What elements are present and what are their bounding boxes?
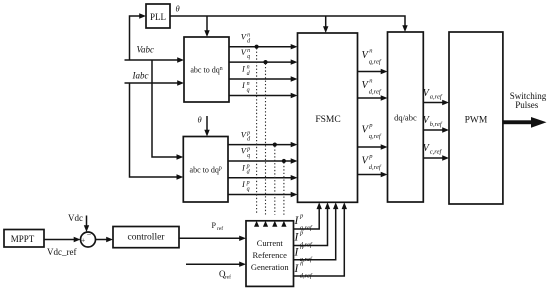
junction dot Vqp — [282, 159, 286, 163]
wire theta branch to abc-to-dqn — [204, 16, 209, 37]
wire Vc_ref — [423, 155, 449, 160]
svg-text:p: p — [246, 130, 250, 136]
block dq/abc — [388, 32, 424, 202]
svg-text:n: n — [247, 81, 250, 87]
wire MPPT to summing junction — [44, 237, 81, 242]
svg-text:PLL: PLL — [150, 12, 166, 22]
junction dot Vdn — [255, 45, 259, 49]
dotted wire Vqn to CRG — [263, 64, 268, 227]
label Vqn — [241, 47, 250, 60]
junction dot Vqn — [263, 60, 267, 64]
label Vdn — [241, 31, 251, 44]
label Idp — [241, 162, 251, 175]
wire theta into abc-to-dqp — [204, 116, 209, 137]
svg-text:Current: Current — [257, 238, 284, 248]
label Iqn — [241, 80, 250, 93]
svg-text:ref: ref — [225, 274, 231, 281]
svg-text:Vdc: Vdc — [68, 213, 83, 223]
wire Vb_ref — [423, 127, 449, 132]
svg-text:MPPT: MPPT — [11, 234, 35, 244]
dotted wire Vdn to CRG — [254, 48, 259, 227]
block controller — [113, 227, 179, 248]
label Vdp — [241, 129, 251, 142]
svg-text:dq/abc: dq/abc — [394, 113, 417, 123]
wire Iabc branch down to abc-to-dqp — [130, 83, 184, 180]
svg-text:Generation: Generation — [251, 262, 290, 272]
svg-text:+: + — [81, 236, 85, 245]
svg-text:d,ref: d,ref — [300, 273, 313, 280]
wire Idp output — [228, 175, 298, 180]
wire Vdn output — [229, 44, 298, 49]
dotted wire Vqp to CRG — [281, 163, 286, 227]
wire Vdp_ref FSMC to dq/abc — [358, 172, 388, 177]
wire summing junction to controller — [96, 237, 114, 242]
wire theta bus PLL to dq/abc — [170, 16, 408, 32]
wire Iqn output — [229, 93, 298, 98]
block PWM — [449, 32, 503, 204]
svg-text:n: n — [369, 78, 372, 85]
svg-text:q: q — [247, 187, 250, 193]
wire Vdc into summing junction — [84, 216, 89, 233]
wire Iqp output — [228, 192, 298, 197]
wire Qref input to CRG — [186, 262, 246, 267]
dotted wire Vdp to CRG — [272, 146, 277, 227]
wire Idn output — [229, 76, 298, 81]
svg-text:q,ref: q,ref — [369, 59, 382, 66]
svg-text:abc to dqp: abc to dqp — [190, 166, 222, 175]
block Current Reference Generation — [246, 221, 294, 287]
wire Pref controller to CRG — [179, 236, 246, 241]
block abc to dq n — [184, 37, 229, 102]
wire Vdp output — [228, 142, 298, 147]
svg-text:q: q — [247, 88, 250, 94]
label Switching Pulses — [510, 91, 547, 110]
svg-text:c,ref: c,ref — [430, 148, 443, 155]
svg-text:n: n — [247, 32, 250, 38]
label Vdn_ref — [362, 78, 382, 96]
wire Vabc branch down to abc-to-dqp — [152, 60, 183, 160]
svg-text:a,ref: a,ref — [430, 94, 443, 101]
label Iqp_ref — [294, 213, 313, 232]
svg-text:q: q — [247, 54, 250, 60]
label Iqp — [241, 179, 250, 192]
svg-text:θ: θ — [176, 4, 180, 14]
svg-text:n: n — [247, 65, 250, 71]
svg-text:b,ref: b,ref — [430, 121, 443, 128]
label Vb_ref — [423, 115, 443, 128]
label Vc_ref — [423, 143, 443, 156]
wire Iabc input to abc-to-dqn — [125, 80, 185, 85]
svg-text:PWM: PWM — [465, 116, 488, 126]
wire Vqn output — [229, 59, 298, 64]
wire Idp_ref CRG to FSMC — [294, 202, 331, 245]
wire Iqn_ref CRG to FSMC — [294, 202, 339, 259]
block abc to dq p — [183, 137, 228, 203]
label Idn_ref — [294, 261, 313, 280]
wire Vabc input to abc-to-dqn — [125, 57, 185, 62]
svg-text:θ: θ — [198, 115, 202, 125]
svg-text:P: P — [212, 221, 217, 230]
summing junction — [81, 230, 96, 247]
label Iqn_ref — [294, 244, 313, 263]
svg-text:p: p — [246, 180, 250, 186]
svg-text:n: n — [247, 48, 250, 54]
svg-text:Pulses: Pulses — [515, 100, 539, 110]
svg-text:Vabc: Vabc — [137, 45, 155, 55]
svg-text:Vdc_ref: Vdc_ref — [47, 247, 76, 257]
wire Vabc branch up to PLL — [130, 13, 147, 60]
wire Idn_ref CRG to FSMC — [294, 202, 348, 276]
label Idn — [241, 64, 251, 77]
wire Iqp_ref CRG to FSMC — [294, 202, 322, 229]
wire Vqp_ref FSMC to dq/abc — [358, 144, 388, 149]
svg-text:FSMC: FSMC — [315, 115, 340, 125]
junction dot Vdp — [273, 143, 277, 147]
svg-text:n: n — [369, 48, 372, 55]
svg-text:Reference: Reference — [253, 250, 288, 260]
svg-text:q,ref: q,ref — [369, 133, 382, 140]
svg-text:n: n — [300, 244, 303, 251]
wire Vdn_ref FSMC to dq/abc — [358, 95, 388, 100]
svg-text:p: p — [246, 147, 250, 153]
svg-text:n: n — [300, 261, 303, 268]
block MPPT — [4, 230, 44, 248]
svg-text:p: p — [368, 122, 373, 129]
label Vqp_ref — [362, 122, 382, 140]
wire Va_ref — [423, 100, 449, 105]
label Vqn_ref — [362, 48, 382, 66]
arrow switching pulses — [503, 117, 547, 128]
wire Vqp output — [228, 158, 298, 163]
svg-text:−: − — [87, 230, 92, 239]
label Va_ref — [423, 88, 443, 101]
svg-text:controller: controller — [128, 233, 166, 243]
svg-text:p: p — [368, 153, 373, 160]
block PLL — [146, 4, 170, 28]
svg-text:Iabc: Iabc — [132, 71, 149, 81]
svg-text:ref: ref — [217, 225, 223, 232]
label Qref — [219, 269, 231, 281]
label Vqp — [241, 146, 250, 159]
wire theta branch to FSMC — [323, 16, 328, 33]
svg-text:p: p — [246, 163, 250, 169]
svg-text:abc to dqn: abc to dqn — [190, 66, 222, 75]
label Idp_ref — [294, 229, 313, 248]
label Pref — [212, 221, 224, 232]
svg-text:d,ref: d,ref — [369, 89, 382, 96]
svg-text:q: q — [247, 153, 250, 159]
block FSMC — [298, 33, 358, 202]
wire Vqn_ref FSMC to dq/abc — [358, 69, 388, 74]
svg-text:d,ref: d,ref — [369, 164, 382, 171]
label Vdp_ref — [362, 153, 382, 171]
